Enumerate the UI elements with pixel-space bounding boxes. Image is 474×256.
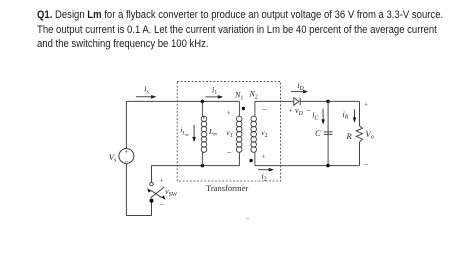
svg-text:vSW: vSW <box>165 187 178 198</box>
wire: left rail and top primary wire <box>126 101 239 148</box>
svg-text:R: R <box>346 131 353 141</box>
svg-text:−: − <box>159 199 165 209</box>
node: bottom junction at Lm <box>201 164 205 168</box>
source Vs <box>119 149 134 167</box>
svg-text:Transformer: Transformer <box>206 183 248 193</box>
svg-text:N1: N1 <box>234 91 243 102</box>
svg-text:+: + <box>261 152 266 160</box>
current arrow i1 <box>205 95 223 99</box>
svg-text:+: + <box>124 149 128 156</box>
current arrow iR <box>353 109 357 122</box>
svg-text:N2: N2 <box>249 90 258 101</box>
svg-text:+: + <box>226 109 231 117</box>
polarity dot N1 <box>242 107 245 110</box>
node: bottom capacitor junction <box>326 164 330 168</box>
svg-text:i1: i1 <box>212 85 217 96</box>
wire: switch top to transformer primary bottom, N1 bottom stem <box>152 152 240 182</box>
stray mark <box>246 217 249 220</box>
svg-text:is: is <box>144 85 149 96</box>
winding N2 <box>251 101 257 165</box>
wire: source bottom to bottom-left rail up to switch dot <box>126 163 151 215</box>
switch SW <box>147 182 165 203</box>
node: top junction at Lm <box>201 100 205 104</box>
current arrow i2 <box>258 168 274 172</box>
svg-text:+: + <box>288 106 293 114</box>
current arrow iC <box>321 109 325 125</box>
transformer dashed box <box>177 82 280 181</box>
resistor R <box>356 101 362 165</box>
current arrow iD <box>291 90 308 94</box>
svg-text:v2: v2 <box>261 128 267 139</box>
svg-text:Vo: Vo <box>366 129 374 141</box>
svg-text:iLm: iLm <box>180 126 188 137</box>
svg-text:−: − <box>226 147 232 157</box>
winding N1 <box>236 101 242 152</box>
svg-text:+: + <box>364 101 369 109</box>
svg-text:−: − <box>363 160 368 169</box>
inductor Lm <box>201 101 207 165</box>
current arrow iLm <box>192 125 196 143</box>
svg-text:C: C <box>315 128 321 138</box>
svg-text:iD: iD <box>297 81 304 92</box>
svg-text:+: + <box>159 177 164 185</box>
svg-text:−: − <box>306 105 312 115</box>
diode D <box>294 98 300 106</box>
wire: N2 top to diode anode <box>255 100 293 102</box>
svg-text:−: − <box>262 104 268 114</box>
problem statement text <box>37 8 474 52</box>
svg-text:Lm: Lm <box>208 127 217 137</box>
current arrow is <box>136 95 157 99</box>
svg-text:iC: iC <box>312 111 319 122</box>
svg-text:iR: iR <box>343 110 349 121</box>
capacitor C <box>324 101 333 165</box>
svg-text:v1: v1 <box>226 128 232 139</box>
wire: secondary bottom rail <box>255 165 360 167</box>
wire: diode cathode to top-right corner <box>300 100 359 102</box>
svg-text:Vs: Vs <box>109 152 117 164</box>
polarity dot N2 <box>249 159 252 162</box>
svg-text:vD: vD <box>295 106 304 117</box>
node: top capacitor junction <box>326 100 330 104</box>
